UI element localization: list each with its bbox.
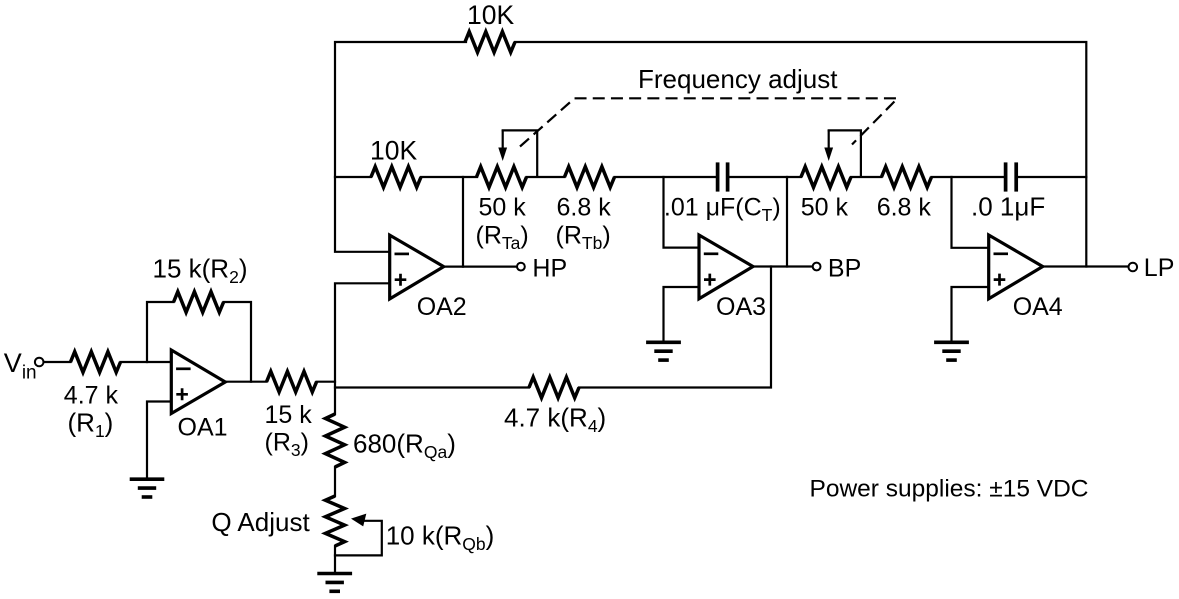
svg-text:.0 1μF: .0 1μF [971,192,1045,222]
svg-text:HP: HP [532,255,567,283]
wire OA2 output to HP terminal [443,266,517,268]
wire OA3 + input to ground [664,287,700,341]
wire OA3 output to BP terminal [753,265,813,267]
resistor 10K (top feedback) [465,0,515,52]
wire RTa to RTb [527,176,565,178]
ground (OA4) [934,342,969,360]
wire R2 feedback right leg to OA1 output [224,302,251,382]
svg-text:15 k(R2): 15 k(R2) [153,254,248,288]
svg-text:Vin: Vin [4,348,37,384]
wire OA4 + input to ground [952,287,989,341]
potentiometer 50 k (second frequency pot) [801,130,861,221]
ground (OA3) [646,342,681,360]
wire OA4 output to LP terminal [1042,265,1129,267]
wire Vin to R1 [45,361,71,363]
op-amp OA1 [171,350,227,442]
capacitor .0 1uF [971,162,1045,221]
svg-text:OA1: OA1 [178,414,228,442]
wire R2 feedback left leg [147,302,174,362]
ground (OA1) [130,479,165,497]
resistor 6.8 k (second) [877,167,932,222]
wire 6.8k to cap2 [932,176,1004,178]
wire row2 from bus to 10K [335,176,371,178]
svg-text:(RTa): (RTa) [476,222,529,254]
wire top feedback (right half), right bus down to LP node [515,42,1086,267]
wire OA2 + input down the bus to RQa (node A) [335,283,390,414]
wire OA4 inverting input up to row2 [952,177,989,248]
wire R3 to node A [317,381,335,383]
dashed callout lines [520,98,898,146]
svg-text:10K: 10K [370,136,417,166]
wire node A to R4 [335,386,529,388]
capacitor CT .01uF [664,162,781,225]
op-amp OA3 [699,235,766,321]
potentiometer RTa 50 k [476,130,538,253]
wire cap2 to right bus [1018,176,1086,178]
svg-text:OA3: OA3 [716,293,766,321]
svg-text:.01 μF(CT): .01 μF(CT) [664,194,781,226]
wire OA3 inverting input up to row2 [664,177,700,248]
terminal BP [813,255,862,283]
svg-text:Frequency adjust: Frequency adjust [638,64,838,94]
wire R1 to OA1 inverting input [121,361,172,363]
ground (bottom) [317,574,352,592]
svg-text:4.7 k(R4): 4.7 k(R4) [504,403,606,437]
svg-text:4.7 k: 4.7 k [64,382,119,410]
svg-text:15 k: 15 k [265,401,313,429]
resistor R1 4.7 k [64,352,121,441]
svg-text:50 k: 50 k [479,194,527,222]
wire RQa to RQb [334,467,336,496]
op-amp OA2 [390,235,467,321]
svg-text:50 k: 50 k [801,194,849,222]
terminal LP [1129,254,1175,282]
svg-text:10K: 10K [467,0,514,30]
input terminal Vin [4,348,44,384]
svg-text:(R3): (R3) [265,429,309,461]
svg-text:(RTb): (RTb) [556,222,611,254]
svg-text:(R1): (R1) [68,408,114,442]
resistor RQa 680 [325,414,344,467]
resistor R3 15 k [265,371,317,460]
resistor RTb 6.8 k [556,167,615,253]
op-amp OA4 [989,235,1063,321]
resistor R2 15 k [153,254,248,313]
svg-text:Q Adjust: Q Adjust [211,507,310,537]
svg-text:LP: LP [1144,254,1175,282]
wire RQb to ground [334,546,336,572]
wire pot2 to 6.8k [851,176,882,178]
wire OA1 output to R3 [226,381,267,383]
wire CT to 50k pot 2 [730,176,801,178]
wire OA1 + input to ground [147,402,171,478]
wire OA2 inverting input, left bus up, top feedback wire (left half) [335,42,466,252]
wire HP node up to row2 [462,177,464,267]
wire R4 to BP node [579,267,771,388]
svg-text:Power supplies: ±15 VDC: Power supplies: ±15 VDC [810,475,1089,502]
resistor 10K (OA2 input) [370,136,421,188]
svg-text:680(RQa): 680(RQa) [353,429,456,463]
wire RTb to CT [615,176,716,178]
svg-text:6.8 k: 6.8 k [557,194,612,222]
svg-text:OA4: OA4 [1013,293,1063,321]
svg-text:OA2: OA2 [417,293,467,321]
wire 10K to RTa [421,176,477,178]
svg-text:6.8 k: 6.8 k [877,194,932,222]
terminal HP [517,255,567,283]
resistor R4 4.7 k [504,377,606,436]
wire BP node up to row2 [786,177,788,267]
potentiometer RQb 10 k [325,496,494,555]
svg-text:10 k(RQb): 10 k(RQb) [386,521,495,555]
svg-text:BP: BP [828,255,861,283]
